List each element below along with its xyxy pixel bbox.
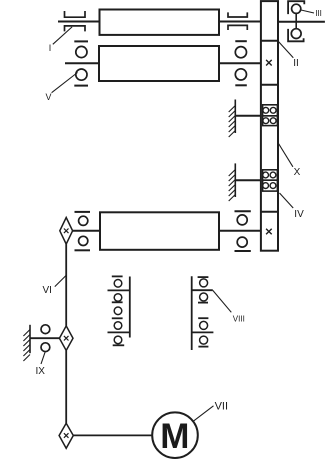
wire wall support 1 to column bbox=[235, 115, 261, 117]
wall support 1 hatching bbox=[229, 106, 236, 138]
bearing right of shaft 2 upper bar bbox=[235, 40, 247, 42]
gear stack B bar 3 bbox=[198, 302, 208, 304]
gear pair IV box upper bbox=[263, 170, 278, 180]
gear stack B bar 5 bbox=[192, 331, 214, 333]
svg-text:IV: IV bbox=[294, 209, 304, 220]
bearing V lower circle bbox=[76, 69, 87, 80]
bearing left of shaft 1 (lower half) bbox=[65, 26, 86, 32]
wire shaft III bbox=[278, 21, 325, 23]
svg-text:III: III bbox=[315, 9, 322, 18]
gear stand column II bbox=[261, 1, 278, 251]
gear stack A circle 5 bbox=[114, 336, 122, 344]
label VII leader bbox=[194, 406, 214, 421]
gear stack A circle 3 bbox=[114, 307, 122, 315]
bearing right of shaft 2 upper circle bbox=[235, 47, 246, 58]
bearing left of shaft 3 lower bar bbox=[75, 249, 91, 251]
label V leader bbox=[52, 73, 78, 93]
wire shaft 2 left bbox=[65, 62, 99, 64]
gear stack B bar 1 bbox=[198, 276, 209, 278]
universal joint 3 bbox=[59, 423, 73, 448]
gear stack A bar 5 bbox=[108, 331, 130, 333]
gear IV circle 3 bbox=[263, 183, 269, 189]
bearing V upper bar bbox=[74, 40, 88, 42]
shaft III housing top bracket bbox=[288, 1, 304, 14]
svg-text:M: M bbox=[160, 417, 189, 456]
gear stack A shaft bbox=[129, 277, 131, 338]
wire vertical shaft VI upper bbox=[65, 244, 67, 326]
label VIII leader bbox=[213, 290, 232, 312]
wire shaft 1 left bbox=[58, 21, 100, 23]
column divider a bbox=[261, 40, 278, 42]
column divider c bbox=[261, 211, 278, 213]
roller 2 (middle roll V) bbox=[99, 46, 219, 81]
gear stack B circle 1 bbox=[200, 279, 208, 287]
wall support 2 post bbox=[234, 163, 236, 197]
label II leader bbox=[278, 41, 293, 58]
universal joint 3 cross bbox=[64, 433, 69, 438]
svg-text:VII: VII bbox=[215, 400, 228, 412]
bearing left of shaft 3 lower circle bbox=[79, 236, 88, 245]
gear stack A bar 6 bbox=[113, 344, 125, 346]
label I leader bbox=[53, 27, 72, 44]
gear IV circle 4 bbox=[270, 183, 276, 189]
bearing III upper circle bbox=[292, 4, 301, 13]
bearing left of shaft 3 upper bar bbox=[75, 211, 91, 213]
label III leader bbox=[301, 10, 314, 13]
label X leader bbox=[278, 143, 293, 167]
wire III connector bbox=[295, 13, 297, 28]
gear X circle 1 bbox=[263, 107, 269, 113]
bearing IX upper circle bbox=[41, 325, 50, 334]
roller 3 (lower roll) bbox=[100, 212, 219, 250]
wire vertical shaft VI lower bbox=[65, 351, 67, 424]
gear pair IV box lower bbox=[263, 180, 278, 191]
shaft III housing bottom bracket bbox=[288, 29, 304, 41]
bearing left of shaft 3 upper circle bbox=[79, 216, 88, 225]
bearing right of shaft 1 (upper half) bbox=[228, 12, 247, 17]
coupling x upper bbox=[266, 60, 272, 66]
gear X circle 2 bbox=[270, 107, 276, 113]
label IX leader bbox=[41, 352, 45, 364]
wire motor shaft bbox=[73, 434, 152, 436]
wall support 1 post bbox=[234, 100, 236, 134]
universal joint 2 bbox=[59, 326, 73, 351]
gear pair X box lower bbox=[263, 116, 278, 126]
gear stack A circle 4 bbox=[114, 322, 122, 330]
svg-text:VIII: VIII bbox=[233, 315, 245, 324]
gear IV circle 1 bbox=[263, 172, 269, 178]
bearing IX lower circle bbox=[41, 343, 50, 352]
gear stack A bar 2 bbox=[108, 289, 130, 291]
gear stack B circle 2 bbox=[200, 293, 208, 301]
support IX wall post bbox=[29, 325, 31, 353]
bearing right of shaft 3 lower bar bbox=[235, 250, 251, 252]
bearing III lower circle bbox=[291, 29, 301, 39]
gear X circle 3 bbox=[263, 118, 269, 124]
gear stack A bar 3 bbox=[112, 301, 123, 303]
universal joint 1 bbox=[60, 218, 73, 245]
svg-text:X: X bbox=[294, 167, 301, 178]
bearing right of shaft 2 lower bar bbox=[235, 84, 247, 86]
gear stack B bar 4 bbox=[198, 317, 208, 319]
gear stack B shaft bbox=[191, 276, 193, 350]
universal joint 2 cross bbox=[64, 336, 69, 341]
bearing right of shaft 3 upper bar bbox=[235, 210, 251, 212]
bearing V upper circle bbox=[76, 46, 87, 57]
svg-text:IX: IX bbox=[36, 366, 46, 377]
column divider b bbox=[261, 84, 278, 86]
support IX hatching bbox=[23, 330, 30, 362]
wall support 2 hatching bbox=[229, 170, 236, 202]
gear stack B circle 3 bbox=[200, 321, 208, 329]
gear stack A circle 2 bbox=[114, 294, 122, 302]
wire shaft 2 right bbox=[219, 62, 261, 64]
bearing left of shaft 1 (upper half) bbox=[65, 11, 86, 17]
wire shaft 3 right bbox=[219, 230, 261, 232]
gear stack A circle 1 bbox=[114, 280, 122, 288]
svg-text:V: V bbox=[46, 92, 52, 102]
svg-text:II: II bbox=[293, 58, 299, 69]
universal joint 1 cross bbox=[64, 229, 69, 234]
bearing right of shaft 2 lower circle bbox=[235, 69, 246, 80]
motor VII circle bbox=[152, 412, 198, 458]
bearing right of shaft 3 upper circle bbox=[237, 215, 247, 225]
coupling x lower bbox=[266, 229, 272, 235]
wire support IX shaft bbox=[30, 337, 59, 339]
svg-text:I: I bbox=[49, 43, 52, 53]
gear pair X box upper bbox=[263, 105, 278, 116]
bearing right of shaft 3 lower circle bbox=[237, 237, 247, 247]
bearing right of shaft 1 (lower half) bbox=[228, 25, 247, 30]
label IV leader bbox=[280, 193, 294, 208]
roller 1 (upper work roll) bbox=[100, 10, 220, 35]
svg-text:VI: VI bbox=[43, 285, 52, 296]
gear IV circle 2 bbox=[270, 172, 276, 178]
gear X circle 4 bbox=[270, 118, 276, 124]
wire wall support 2 to column bbox=[235, 179, 261, 181]
label VI leader bbox=[55, 276, 66, 287]
wire shaft 3 left bbox=[72, 230, 100, 232]
bearing V lower bar bbox=[74, 85, 88, 87]
gear stack A bar 4 bbox=[112, 317, 123, 319]
wire shaft 1 right bbox=[219, 21, 261, 23]
gear stack B bar 6 bbox=[198, 346, 208, 348]
gear stack B bar 2 bbox=[192, 289, 213, 291]
gear stack A bar 1 bbox=[112, 275, 123, 277]
gear stack B circle 4 bbox=[200, 336, 208, 344]
